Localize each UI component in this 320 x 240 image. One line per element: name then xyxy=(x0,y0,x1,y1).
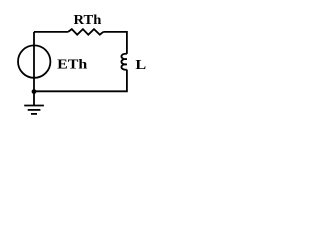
junction dot xyxy=(32,89,37,94)
ground xyxy=(24,91,44,114)
wire top-left horizontal xyxy=(34,31,68,33)
svg-text:RTh: RTh xyxy=(74,13,102,28)
resistor RTh xyxy=(68,29,103,35)
wire top-right horizontal and right vertical upper xyxy=(103,32,127,54)
wire right vertical lower and bottom horizontal xyxy=(34,70,127,92)
wire left vertical xyxy=(33,32,35,92)
inductor L xyxy=(121,54,126,70)
svg-text:L: L xyxy=(135,58,146,73)
svg-text:ETh: ETh xyxy=(57,57,87,72)
voltage source ETh xyxy=(18,45,50,77)
